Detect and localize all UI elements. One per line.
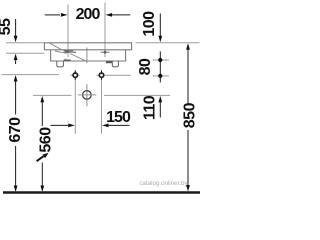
extension line fixing-hole right vertical <box>101 70 103 133</box>
svg-text:560: 560 <box>38 127 55 153</box>
overflow marker cross line <box>101 51 110 53</box>
dim 560 line upper <box>41 102 43 126</box>
hole-level line left arm <box>70 74 79 76</box>
siphon outlet cross arm <box>78 94 96 96</box>
dim 560 line lower <box>41 163 43 187</box>
dim 80 line <box>159 51 161 82</box>
extension line fixing-hole left vertical <box>74 70 76 134</box>
dim 150 line left <box>51 124 69 126</box>
dim 850 arrow top <box>186 43 190 50</box>
floor line <box>3 191 200 194</box>
drain detail line 1 <box>64 50 74 52</box>
dim 850 arrow bottom <box>186 185 190 192</box>
right foot <box>112 61 118 67</box>
drain pipe slant left <box>55 51 66 53</box>
dim 110 tail <box>159 102 161 117</box>
dim 150 arrow left <box>68 124 75 128</box>
extension line tap-hole vertical right <box>104 3 106 58</box>
svg-text:200: 200 <box>76 6 101 23</box>
trap connection line <box>64 59 71 61</box>
fixing hole left <box>73 70 77 79</box>
dim 200 arrow right <box>106 13 113 17</box>
dim 200 arrow left <box>61 13 68 17</box>
dim 80 dot upper <box>158 58 162 62</box>
drain detail tick 1 <box>64 50 66 54</box>
dim 55 upper line <box>15 19 17 36</box>
dot cross arm upper <box>153 59 170 61</box>
dim 55 lower tail <box>15 60 17 64</box>
fixing hole right <box>99 70 103 79</box>
extension line siphon-level right <box>104 94 170 96</box>
svg-text:150: 150 <box>106 109 131 126</box>
pipe stub dark bar <box>106 61 112 63</box>
hole-level line middle <box>97 74 131 76</box>
basin rim outline <box>44 43 131 50</box>
svg-text:850: 850 <box>182 102 199 128</box>
dim 150 arrow right <box>102 124 109 128</box>
dim 150 line right <box>109 124 130 126</box>
extension line rim-top right <box>136 42 200 44</box>
svg-text:catalog.onliner.by: catalog.onliner.by <box>139 180 188 187</box>
dim 100 tail <box>159 14 161 37</box>
left foot <box>57 61 64 67</box>
dim 560 arrow bottom <box>40 186 44 193</box>
basin underbody <box>51 50 126 61</box>
extension line 670-level <box>2 74 60 76</box>
drain detail line 2 <box>64 51 77 53</box>
svg-text:110: 110 <box>142 95 159 120</box>
trap tick <box>64 59 66 61</box>
dim 670 line lower <box>15 146 17 186</box>
siphon outlet circle <box>83 91 92 100</box>
dim 850 line upper <box>187 50 189 104</box>
drain plug triangle <box>64 51 69 53</box>
adjustable height arrow symbol <box>37 156 44 161</box>
dim 850 line lower <box>187 130 189 186</box>
extension line rim-top left <box>6 42 44 44</box>
dim 200 line right <box>112 14 130 16</box>
dim 670 arrow bottom <box>14 186 18 193</box>
drain detail tick 2 <box>65 50 67 54</box>
dim 100 arrow <box>158 36 162 43</box>
extension line siphon-level left <box>33 94 72 96</box>
dim 110 arrow <box>158 96 162 103</box>
overflow marker diamond <box>103 50 107 54</box>
centerline basin <box>86 48 88 64</box>
extension line tap-hole vertical left <box>67 5 69 58</box>
svg-text:80: 80 <box>137 58 154 75</box>
dim 55 lower arrow <box>14 54 18 61</box>
dim 80 dot lower <box>158 74 162 78</box>
dim 670 line upper <box>15 82 17 115</box>
dim 55 upper arrow <box>14 36 18 43</box>
extension line 55-bottom left <box>6 52 44 54</box>
dim 200 line left <box>45 14 60 16</box>
svg-text:55: 55 <box>0 18 14 35</box>
hole-level line right <box>153 75 170 77</box>
dim 560 arrow top <box>40 96 44 103</box>
dim 670 arrow top <box>14 75 18 82</box>
basin bowl slope <box>50 43 76 53</box>
drain pipe slant <box>70 54 86 61</box>
centerline siphon <box>86 84 88 106</box>
svg-text:670: 670 <box>7 117 24 143</box>
svg-text:100: 100 <box>141 11 158 37</box>
